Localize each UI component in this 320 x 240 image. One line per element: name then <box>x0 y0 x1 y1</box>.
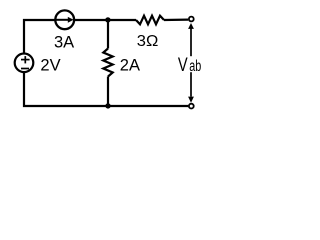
svg-text:V: V <box>178 54 188 76</box>
svg-text:2A: 2A <box>120 56 140 74</box>
svg-text:ab: ab <box>189 58 201 75</box>
svg-text:3A: 3A <box>54 34 74 52</box>
svg-text:2V: 2V <box>40 56 60 74</box>
svg-text:3Ω: 3Ω <box>137 33 159 50</box>
